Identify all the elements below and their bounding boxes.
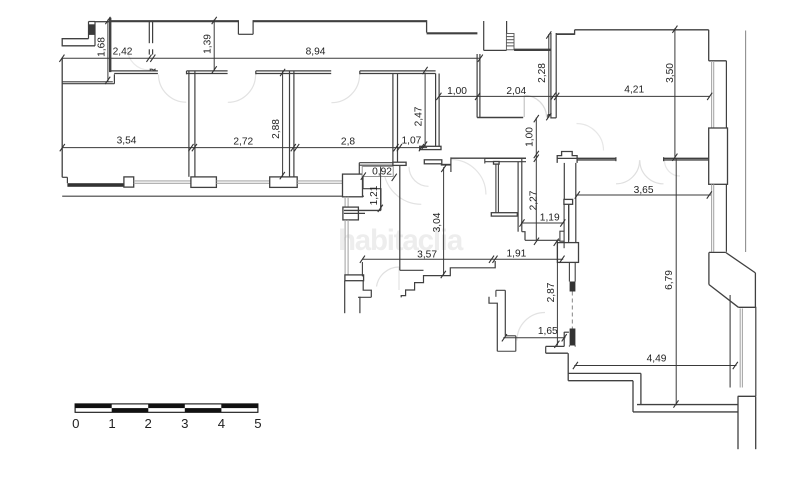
top wall notch bottom [238, 33, 253, 35]
west pillar block 1 [343, 207, 359, 220]
light well inner wall [506, 21, 508, 36]
terrace east wall [755, 396, 757, 449]
top-right step [574, 30, 576, 35]
window W1 left jamb [88, 22, 90, 39]
patio door left jamb [363, 281, 371, 298]
glazed partition hatch top [570, 282, 576, 292]
bath step plate [564, 199, 573, 204]
wall room2/room3 top [148, 22, 150, 44]
entry wall west line [550, 33, 552, 115]
door arc hall double right [640, 160, 664, 184]
glazed partition hatch bottom [570, 329, 576, 346]
foyer east plate [420, 146, 441, 149]
hall block lower [557, 243, 578, 263]
dim 3,50 vertical line [674, 28, 676, 158]
svg-text:0: 0 [72, 416, 79, 431]
scale bar seg2 top [148, 404, 185, 408]
closet2 east step [522, 232, 525, 241]
door arc entry [524, 95, 546, 117]
room1 bottom lower line [62, 83, 114, 85]
west blocks east face [361, 262, 363, 276]
bottom wall left cap [567, 353, 569, 381]
door arc hall west [451, 160, 486, 195]
left outer wall [61, 58, 63, 178]
svg-text:1,00: 1,00 [447, 86, 467, 97]
svg-text:1,65: 1,65 [538, 326, 558, 337]
svg-text:2,87: 2,87 [546, 282, 557, 302]
top wall notch right [252, 20, 254, 34]
svg-text:habitaclia: habitaclia [338, 224, 464, 257]
svg-text:6,79: 6,79 [664, 270, 675, 290]
hall threshold bottom [497, 350, 516, 352]
scale bar seg0 top [75, 404, 112, 408]
patio edge west [344, 281, 346, 314]
terrace west wall [737, 396, 739, 449]
door arc room B [228, 75, 256, 103]
svg-text:4: 4 [218, 416, 225, 431]
corridor wall seg1 upper [111, 70, 158, 72]
dim 1,19 line [521, 222, 564, 224]
living room NE corner horizontal [709, 60, 727, 62]
living room bottom wall east [664, 157, 709, 159]
wall roomA/roomB [188, 72, 190, 177]
closet2 slider tab top [494, 162, 500, 165]
hall west wall upper [495, 290, 497, 297]
door arc living right [664, 160, 680, 176]
bottom wall thick section [67, 183, 124, 187]
hall column west face [563, 204, 565, 231]
foyer junction step [441, 164, 451, 166]
dim 2,47 vertical line [424, 73, 426, 147]
closet2 slider tab bottom [491, 213, 517, 216]
door jamb room B [255, 71, 257, 74]
window E1 glazing [711, 61, 713, 128]
svg-text:1,07: 1,07 [401, 135, 421, 146]
hall column notch [560, 231, 564, 241]
svg-text:1,21: 1,21 [369, 185, 380, 205]
glazed partition dashes [571, 292, 573, 329]
scale bar seg3 bottom [185, 408, 222, 412]
living room bottom wall west [577, 157, 616, 159]
bottom wall band outer [568, 372, 641, 374]
door arc hall double left [616, 160, 640, 184]
svg-text:2,28: 2,28 [537, 63, 548, 83]
svg-text:4,49: 4,49 [647, 354, 667, 365]
svg-text:3,54: 3,54 [117, 136, 137, 147]
scale bar seg4 top [221, 404, 258, 408]
window E2 outer [725, 184, 727, 252]
door arc bottom 1,65 [517, 313, 545, 341]
window E3 glazing [739, 309, 741, 388]
svg-text:2,27: 2,27 [529, 190, 540, 210]
entry wall east line [555, 33, 557, 118]
dim line 3,57 / 1,91 [362, 258, 563, 260]
wall stub vertical [61, 38, 63, 46]
window pillar 3 [270, 177, 298, 188]
hall wall lower stubs [568, 262, 570, 281]
closet2 top wall [485, 157, 526, 159]
terrace north wall outer [637, 404, 738, 406]
dim 1,39 vertical line [213, 20, 215, 71]
top wall step down [426, 20, 428, 32]
door arc room C [331, 75, 359, 103]
hall wall west lower [568, 201, 570, 242]
dim 2,87 vertical line [556, 241, 558, 346]
door arc foyer small leaf [409, 167, 429, 187]
svg-text:3,65: 3,65 [634, 185, 654, 196]
entry door leaf [523, 95, 525, 117]
window E1 outer [725, 61, 727, 128]
hall wall west jog [564, 200, 568, 202]
patio outer line [358, 296, 371, 298]
svg-text:0,92: 0,92 [372, 167, 392, 178]
dim 1,21 vertical line [380, 167, 382, 210]
living room NE corner vertical [708, 30, 710, 61]
bay diagonal outer [726, 252, 756, 273]
south hall wall lower [359, 164, 393, 166]
door arc hall 1,00 [577, 124, 604, 151]
door jamb room C [359, 71, 361, 74]
scale bar seg1 bottom [112, 408, 149, 412]
closet2 sliding leaf [495, 164, 497, 213]
corridor wall seg3 lower [256, 73, 331, 75]
boundary steps polyline [401, 261, 495, 297]
svg-text:8,94: 8,94 [306, 46, 326, 57]
window W1 hatch [89, 24, 95, 35]
hall west jamb vertical [450, 157, 452, 172]
svg-text:1,00: 1,00 [525, 127, 536, 147]
window S2 glazing [216, 180, 269, 182]
svg-text:3: 3 [181, 416, 188, 431]
room304 bottom [400, 269, 424, 271]
terrace north wall inner [633, 411, 738, 413]
svg-text:3,04: 3,04 [432, 212, 443, 232]
window S3 glazing [297, 180, 342, 182]
window W1 cap [89, 21, 96, 23]
door leaf patio [398, 267, 400, 290]
gallery east line [745, 31, 747, 253]
wall roomC/foyer [392, 74, 394, 163]
door arc room2 top-left [128, 49, 150, 71]
west glazing window [344, 220, 346, 275]
corridor wall jamb bump [150, 69, 155, 71]
room304 west wall [399, 166, 401, 271]
bay sill [738, 306, 755, 308]
hall wall pillar top [557, 152, 577, 163]
svg-text:3,57: 3,57 [417, 249, 437, 260]
dim 2,88 vertical line [282, 72, 284, 177]
corridor wall seg4 lower [360, 73, 436, 75]
hall south wall lower [546, 352, 568, 354]
dim line top horizontal [62, 57, 481, 59]
dim 1,68 vertical line [107, 20, 109, 82]
west glazing upper [344, 197, 346, 207]
wall room2/room3 stub [148, 49, 150, 54]
dim 0,92 with box [362, 167, 393, 177]
dim 6,79 vertical line [675, 158, 677, 405]
south hall wall upper [359, 162, 393, 164]
door arc foyer 1,07 [384, 167, 422, 205]
dim line rooms horizontal [62, 147, 427, 149]
door arc patio door [377, 267, 400, 287]
bottom wall outer face line [62, 195, 364, 197]
roomC east plate [393, 162, 406, 165]
hall west wall inner [504, 290, 506, 336]
pillar right wall [709, 128, 728, 184]
svg-text:2,47: 2,47 [413, 106, 424, 126]
svg-text:2,04: 2,04 [506, 86, 526, 97]
window pillar 1 [124, 177, 134, 187]
corridor wall seg2 lower [187, 73, 228, 75]
corner block roomC [343, 174, 363, 197]
svg-text:1,19: 1,19 [540, 212, 560, 223]
hall top wall [477, 117, 523, 119]
svg-text:5: 5 [254, 416, 261, 431]
entry top wall [556, 33, 574, 35]
dim 3,65 line [576, 194, 711, 196]
svg-text:1,39: 1,39 [203, 34, 214, 54]
svg-text:2,8: 2,8 [341, 136, 355, 147]
window E2 glazing [711, 184, 713, 252]
door 1,65 right jamb L [563, 332, 565, 347]
light well bottom [484, 49, 507, 51]
light well left wall [483, 21, 485, 50]
living room top wall [575, 29, 709, 31]
room1 bottom upper line [62, 81, 113, 83]
dim line upper-mid horizontal [439, 95, 710, 97]
foyer east wall [435, 74, 437, 147]
wall roomB/roomC [289, 72, 291, 177]
left wall step [62, 176, 67, 178]
hall threshold ledge [505, 335, 516, 337]
bath wall inner v [568, 204, 570, 240]
lightwell west wall [476, 54, 478, 118]
top wall notch left [237, 20, 239, 34]
bay east edge [754, 273, 756, 307]
bay top wall [709, 251, 726, 253]
hall column west lower [563, 241, 565, 248]
wall stub top-left horizontal upper [62, 38, 88, 40]
west pillar block 2 [345, 275, 364, 281]
dim 2,28 vertical line [548, 34, 550, 118]
bottom wall band inner [568, 380, 633, 382]
corridor wall seg4 upper [360, 70, 436, 72]
foyer junction plate [424, 160, 442, 164]
top wall mid section [253, 20, 427, 22]
room1 bottom step vertical [113, 74, 115, 83]
closet2 east wall [517, 162, 519, 232]
hall wall west [563, 163, 565, 201]
svg-text:2,72: 2,72 [233, 136, 253, 147]
door jamb room A [186, 71, 188, 74]
wall top room1 to main [95, 21, 110, 23]
south hall wall west end [358, 163, 360, 174]
bottom wall step [632, 381, 634, 412]
svg-text:1: 1 [108, 416, 115, 431]
closet niche outline [363, 177, 381, 211]
svg-text:1,68: 1,68 [97, 37, 108, 57]
dim 3,04 vertical line [443, 167, 445, 276]
top wall lower section [427, 32, 478, 34]
top wall left section [109, 20, 239, 22]
svg-text:3,50: 3,50 [665, 63, 676, 83]
entry wall foot jamb [548, 115, 556, 118]
living hall wall top edge [557, 157, 577, 159]
window W2 hatch stripes [506, 34, 514, 50]
svg-text:2: 2 [145, 416, 152, 431]
dim 1,65 line [503, 337, 565, 339]
wall stub horizontal lower [62, 45, 95, 47]
window E3 outer [755, 307, 757, 396]
window E3 inner face [729, 295, 731, 388]
svg-text:4,21: 4,21 [624, 85, 644, 96]
window S1 glazing [134, 180, 191, 182]
bay diagonal inner [709, 285, 739, 308]
terrace step vertical [640, 373, 642, 404]
scale bar outline [75, 404, 258, 412]
dim 4,49 line [574, 365, 736, 367]
wall room1 east [109, 18, 111, 72]
closet2 west end cap [484, 158, 486, 163]
hall wall east [575, 163, 577, 243]
window pillar 2 [191, 177, 217, 188]
glazed partition base [568, 346, 570, 347]
svg-text:2,88: 2,88 [271, 119, 282, 139]
closet bottom wall [344, 209, 381, 211]
door arc room A [159, 75, 187, 103]
corridor wall seg1 lower [114, 73, 158, 75]
svg-text:1,91: 1,91 [506, 249, 526, 260]
corridor wall seg3 upper [256, 70, 331, 72]
svg-text:2,42: 2,42 [113, 47, 133, 58]
hall south wall left cap [545, 346, 547, 353]
hall north wall [451, 157, 485, 159]
hall south wall upper [546, 345, 565, 347]
terrace top edge [738, 395, 756, 397]
bay west inner edge [708, 252, 710, 284]
window W1 right jamb [94, 22, 96, 46]
dim 1,00b vertical line [535, 118, 537, 241]
bath north wall [525, 239, 560, 241]
wall light well to entry [514, 49, 551, 51]
patio edge inner [359, 297, 361, 314]
door jambs double door [615, 157, 617, 161]
corridor wall seg2 upper [187, 70, 228, 72]
